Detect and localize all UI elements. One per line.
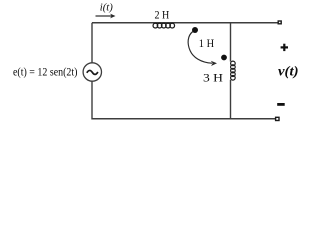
source V1 AC e(t) <box>83 63 101 81</box>
svg-text:e(t) = 12 sen(2t): e(t) = 12 sen(2t) <box>13 66 78 78</box>
wire middle branch upper <box>230 23 232 62</box>
terminal top-right <box>278 21 281 24</box>
wire top: left corner to 2H coil <box>92 22 279 24</box>
terminal bottom-right <box>276 117 279 120</box>
wire left vertical (source branch upper) <box>91 23 93 63</box>
dot (polarity) of L2 <box>221 55 227 61</box>
label minus <box>277 103 285 106</box>
svg-text:1 H: 1 H <box>199 36 215 50</box>
label + <box>281 44 288 51</box>
wire bottom <box>92 118 275 120</box>
svg-text:3 H: 3 H <box>203 70 223 84</box>
inductor L2 3H (loops right of vertical wire) <box>231 61 236 80</box>
svg-text:i(t): i(t) <box>100 2 114 13</box>
wire left vertical (source branch lower) <box>91 81 93 120</box>
current arrow i(t) <box>96 14 116 19</box>
wire middle branch lower <box>230 80 232 120</box>
inductor L1 2H (loops under top wire) <box>153 23 175 28</box>
svg-text:v(t): v(t) <box>278 64 299 79</box>
mutual coupling arc M = 1 H with arrowhead <box>188 32 217 67</box>
svg-text:2 H: 2 H <box>155 8 170 22</box>
dot (polarity) of L1 <box>192 27 198 33</box>
